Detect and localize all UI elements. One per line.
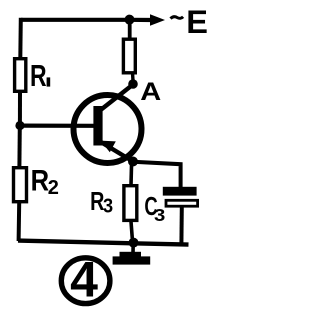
node A bbox=[128, 79, 138, 89]
ground bbox=[113, 243, 151, 265]
resistor R2 bbox=[14, 168, 27, 202]
figure number 4 bbox=[61, 252, 110, 308]
svg-text:R: R bbox=[30, 58, 47, 93]
svg-text:3: 3 bbox=[103, 196, 113, 218]
node base junction bbox=[15, 121, 24, 130]
wire base bbox=[20, 123, 95, 127]
wire capacitor to bottom rail bbox=[179, 207, 183, 245]
wire R3 to ground node bbox=[131, 222, 133, 243]
wire R2 to bottom rail bbox=[17, 203, 22, 242]
svg-text:3: 3 bbox=[154, 206, 165, 226]
node supply junction bbox=[125, 15, 135, 25]
wire R1 to base node bbox=[18, 92, 22, 127]
transistor Q1 bbox=[74, 85, 142, 164]
wire resistor to node A bbox=[131, 74, 135, 81]
wire emitter to capacitor branch bbox=[133, 162, 181, 188]
arrow to supply bbox=[150, 14, 165, 26]
label -E bbox=[171, 17, 184, 19]
node ground junction bbox=[129, 238, 139, 248]
wire collector stub from rail bbox=[128, 20, 132, 39]
wire emitter to R3 bbox=[129, 162, 133, 185]
svg-text:A: A bbox=[140, 77, 161, 106]
svg-text:4: 4 bbox=[70, 252, 98, 308]
wire bottom rail bbox=[18, 241, 189, 245]
wire left top segment bbox=[18, 18, 23, 59]
wire base node to R2 bbox=[17, 126, 21, 168]
wire top rail bbox=[21, 18, 152, 22]
capacitor C3 bbox=[163, 187, 197, 196]
resistor R1 bbox=[15, 59, 26, 92]
svg-text:2: 2 bbox=[48, 177, 59, 199]
resistor R3 bbox=[124, 186, 137, 221]
svg-text:E: E bbox=[186, 4, 208, 40]
svg-text:R: R bbox=[31, 164, 49, 197]
resistor collector load bbox=[123, 39, 135, 73]
node emitter junction bbox=[128, 157, 138, 167]
